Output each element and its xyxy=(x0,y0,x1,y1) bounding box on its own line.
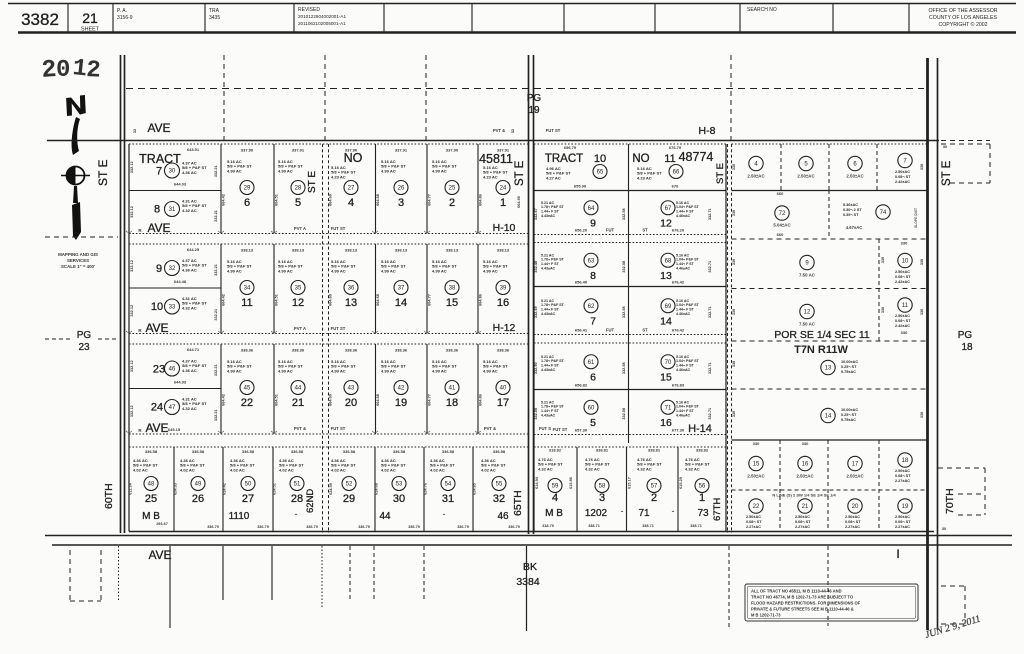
svg-text:FUT S: FUT S xyxy=(539,426,551,431)
header title bar xyxy=(8,3,1016,5)
svg-text:22: 22 xyxy=(241,397,253,409)
svg-text:21: 21 xyxy=(292,397,304,409)
svg-text:FUT: FUT xyxy=(606,328,615,333)
svg-text:H-12: H-12 xyxy=(493,322,516,334)
parcel lot 7 block west xyxy=(129,190,221,192)
svg-text:42: 42 xyxy=(398,386,405,392)
svg-text:330: 330 xyxy=(901,330,908,335)
svg-text:4.99 AC: 4.99 AC xyxy=(381,168,396,173)
svg-text:3435: 3435 xyxy=(209,15,220,21)
svg-text:4.46±AC: 4.46±AC xyxy=(676,214,691,218)
svg-text:10: 10 xyxy=(594,153,606,165)
svg-text:8: 8 xyxy=(590,270,596,282)
svg-text:2.27±AC: 2.27±AC xyxy=(746,525,761,529)
svg-text:676.42: 676.42 xyxy=(672,280,685,285)
svg-text:ST: ST xyxy=(642,228,648,233)
parcel 22 east section xyxy=(749,499,763,513)
svg-text:0.08¬ ST: 0.08¬ ST xyxy=(895,275,911,279)
svg-text:25: 25 xyxy=(449,186,456,192)
svg-text:-: - xyxy=(672,506,675,516)
svg-text:615.17: 615.17 xyxy=(628,477,632,489)
svg-text:22: 22 xyxy=(753,504,760,510)
svg-text:2.50±AC: 2.50±AC xyxy=(846,174,864,179)
svg-text:FUT ST: FUT ST xyxy=(546,128,561,133)
svg-text:61: 61 xyxy=(588,360,595,366)
svg-text:332.71: 332.71 xyxy=(708,408,712,420)
svg-text:SERVICES: SERVICES xyxy=(67,258,89,263)
svg-text:293.67: 293.67 xyxy=(156,522,168,526)
svg-text:14: 14 xyxy=(395,297,407,309)
svg-text:332.21: 332.21 xyxy=(214,210,218,222)
svg-text:32: 32 xyxy=(510,128,515,133)
svg-text:8: 8 xyxy=(154,204,160,216)
svg-text:615.29: 615.29 xyxy=(679,477,683,489)
svg-text:1.04¬ P&F ST: 1.04¬ P&F ST xyxy=(676,405,700,409)
corner ticks xyxy=(126,231,132,233)
svg-text:2.27±AC: 2.27±AC xyxy=(895,525,910,529)
svg-text:5.21 AC: 5.21 AC xyxy=(541,299,554,303)
svg-text:330: 330 xyxy=(732,309,736,315)
svg-text:38: 38 xyxy=(449,286,456,292)
svg-text:4.99 AC: 4.99 AC xyxy=(227,368,242,373)
svg-text:70: 70 xyxy=(665,360,672,366)
svg-text:1202: 1202 xyxy=(585,508,608,519)
svg-text:2.42±AC: 2.42±AC xyxy=(895,180,910,184)
svg-text:M B 1202-71-73: M B 1202-71-73 xyxy=(751,613,781,618)
svg-text:332.71: 332.71 xyxy=(708,362,712,374)
svg-text:0.30¬ 2 ST: 0.30¬ 2 ST xyxy=(843,208,862,212)
svg-text:664.68: 664.68 xyxy=(376,294,380,306)
street bottom AVE I double line xyxy=(45,535,1012,537)
east section row lines xyxy=(732,143,928,145)
svg-text:332.71: 332.71 xyxy=(708,261,712,273)
svg-text:1.44¬ F ST: 1.44¬ F ST xyxy=(541,409,560,413)
svg-text:332.12: 332.12 xyxy=(130,260,134,272)
svg-text:6: 6 xyxy=(590,371,596,383)
svg-text:332.71: 332.71 xyxy=(708,208,712,220)
dashed box right of 70th below ave xyxy=(941,585,965,587)
svg-text:AVE: AVE xyxy=(147,221,170,235)
svg-text:655.99: 655.99 xyxy=(574,184,587,189)
street 70TH ST east boundary xyxy=(926,58,929,630)
svg-text:330: 330 xyxy=(802,441,809,446)
svg-text:4.99 AC: 4.99 AC xyxy=(278,268,293,273)
svg-text:644.48: 644.48 xyxy=(174,279,187,284)
svg-text:330: 330 xyxy=(753,441,760,446)
svg-text:9: 9 xyxy=(590,217,596,229)
svg-text:20: 20 xyxy=(345,397,357,409)
svg-text:56: 56 xyxy=(699,484,706,490)
svg-text:2.50±AC: 2.50±AC xyxy=(846,474,864,479)
svg-text:676.83: 676.83 xyxy=(672,383,685,388)
svg-text:664.42: 664.42 xyxy=(222,294,226,306)
svg-text:332.58: 332.58 xyxy=(622,261,626,273)
svg-text:28: 28 xyxy=(295,186,302,192)
PG18 dashed box mid right xyxy=(938,467,985,469)
svg-text:13: 13 xyxy=(660,270,672,282)
svg-text:614.94: 614.94 xyxy=(535,476,539,489)
svg-text:62: 62 xyxy=(588,304,595,310)
svg-text:4.99 AC: 4.99 AC xyxy=(432,368,447,373)
svg-text:656.79: 656.79 xyxy=(564,145,577,150)
svg-text:-: - xyxy=(443,509,446,519)
svg-text:65TH: 65TH xyxy=(512,490,524,516)
svg-text:664.42: 664.42 xyxy=(222,194,226,206)
dashed box lower left xyxy=(69,550,71,601)
svg-text:664.77: 664.77 xyxy=(428,294,432,306)
svg-text:664.68: 664.68 xyxy=(376,194,380,206)
svg-text:338.13: 338.13 xyxy=(292,248,305,253)
svg-text:4.02 AC: 4.02 AC xyxy=(133,467,148,472)
svg-text:30: 30 xyxy=(393,493,405,505)
svg-text:4.36 AC: 4.36 AC xyxy=(182,267,197,272)
svg-text:41: 41 xyxy=(449,386,456,392)
svg-text:9.75±AC: 9.75±AC xyxy=(841,418,856,422)
svg-text:4.23 AC: 4.23 AC xyxy=(331,174,346,179)
svg-text:14: 14 xyxy=(660,315,672,327)
svg-text:4: 4 xyxy=(348,197,354,209)
svg-text:4.99 AC: 4.99 AC xyxy=(278,168,293,173)
svg-text:1: 1 xyxy=(699,492,705,504)
svg-text:FUT ST: FUT ST xyxy=(553,427,568,432)
svg-text:69: 69 xyxy=(665,304,672,310)
svg-text:36: 36 xyxy=(348,286,355,292)
svg-text:332.12: 332.12 xyxy=(130,206,134,218)
svg-text:332.21: 332.21 xyxy=(214,409,218,421)
svg-text:28: 28 xyxy=(291,493,303,505)
svg-text:AVE: AVE xyxy=(145,421,168,435)
svg-text:2.50±AC: 2.50±AC xyxy=(895,270,910,274)
svg-text:2.50±AC: 2.50±AC xyxy=(795,515,810,519)
svg-text:4.99 AC: 4.99 AC xyxy=(432,168,447,173)
svg-text:330: 330 xyxy=(881,257,885,263)
svg-text:330: 330 xyxy=(732,259,736,265)
svg-text:624.68: 624.68 xyxy=(375,483,379,495)
svg-text:337.91: 337.91 xyxy=(292,148,305,153)
svg-text:5: 5 xyxy=(295,197,301,209)
svg-text:2.42±AC: 2.42±AC xyxy=(895,280,910,284)
svg-text:664.60: 664.60 xyxy=(329,194,333,206)
svg-text:60TH: 60TH xyxy=(103,483,115,509)
svg-text:4.99 AC: 4.99 AC xyxy=(278,368,293,373)
svg-text:FUT: FUT xyxy=(606,228,615,233)
svg-text:0.25¬ ST: 0.25¬ ST xyxy=(841,413,857,417)
svg-text:656.41: 656.41 xyxy=(575,328,588,333)
east section column dashes rows5-6 xyxy=(779,440,781,531)
svg-text:48774: 48774 xyxy=(679,150,714,164)
svg-text:TRA: TRA xyxy=(209,8,220,14)
svg-text:31: 31 xyxy=(169,207,176,213)
svg-text:18: 18 xyxy=(446,397,458,409)
svg-text:332.21: 332.21 xyxy=(214,264,218,276)
svg-text:644.03: 644.03 xyxy=(174,182,187,187)
svg-text:47: 47 xyxy=(169,405,176,411)
svg-text:0.08¬ ST: 0.08¬ ST xyxy=(895,175,911,179)
svg-text:54: 54 xyxy=(445,482,452,488)
parcel 12 east section xyxy=(800,304,814,318)
svg-text:POR SE 1/4 SEC 11: POR SE 1/4 SEC 11 xyxy=(774,329,870,341)
tract 48774 boundary xyxy=(533,144,535,532)
svg-text:4.32 AC: 4.32 AC xyxy=(637,466,652,471)
svg-text:2.50±AC: 2.50±AC xyxy=(797,174,815,179)
svg-text:336.79: 336.79 xyxy=(207,525,219,529)
svg-text:7: 7 xyxy=(590,315,596,327)
svg-text:1.44¬ F ST: 1.44¬ F ST xyxy=(676,210,695,214)
svg-text:4.99 AC: 4.99 AC xyxy=(483,268,498,273)
svg-text:68: 68 xyxy=(665,258,672,264)
svg-text:5.16 AC: 5.16 AC xyxy=(676,253,689,257)
svg-text:51: 51 xyxy=(294,482,301,488)
vertical dash extensions above H-8 xyxy=(223,55,225,140)
svg-text:71: 71 xyxy=(665,405,672,411)
svg-text:4.02 AC: 4.02 AC xyxy=(331,467,346,472)
svg-text:0.08¬ ST: 0.08¬ ST xyxy=(895,319,911,323)
svg-text:338.36: 338.36 xyxy=(292,348,305,353)
parcel 5 east section xyxy=(799,156,813,170)
svg-text:FUT ST: FUT ST xyxy=(331,326,346,331)
parcel 4 east section xyxy=(749,156,763,170)
svg-text:338.13: 338.13 xyxy=(497,248,510,253)
svg-text:2.50±AC: 2.50±AC xyxy=(796,474,814,479)
svg-text:67TH: 67TH xyxy=(712,498,723,521)
svg-text:4.46±AC: 4.46±AC xyxy=(676,266,691,270)
svg-text:4.02 AC: 4.02 AC xyxy=(381,467,396,472)
svg-text:338.13: 338.13 xyxy=(241,248,254,253)
svg-text:ST E: ST E xyxy=(96,160,110,186)
svg-text:63: 63 xyxy=(588,258,595,264)
svg-text:12: 12 xyxy=(660,217,672,229)
svg-text:338.36: 338.36 xyxy=(446,348,459,353)
svg-text:OFFICE OF THE ASSESSOR: OFFICE OF THE ASSESSOR xyxy=(928,8,997,14)
svg-text:29: 29 xyxy=(343,493,355,505)
svg-text:TRACT: TRACT xyxy=(545,153,583,165)
svg-text:4.43±AC: 4.43±AC xyxy=(541,413,556,417)
svg-text:PG: PG xyxy=(77,330,92,341)
svg-text:336.58: 336.58 xyxy=(343,449,356,454)
svg-text:664.51: 664.51 xyxy=(275,394,279,406)
svg-text:676: 676 xyxy=(672,184,679,189)
svg-text:45811: 45811 xyxy=(479,152,513,166)
svg-text:M B: M B xyxy=(545,508,563,519)
svg-text:12: 12 xyxy=(292,297,304,309)
svg-text:SEARCH NO: SEARCH NO xyxy=(747,7,777,13)
svg-text:338.13: 338.13 xyxy=(395,248,408,253)
svg-text:338.81: 338.81 xyxy=(648,448,661,453)
svg-text:336.79: 336.79 xyxy=(457,525,469,529)
svg-text:645.15: 645.15 xyxy=(168,427,181,432)
svg-text:7.50 AC: 7.50 AC xyxy=(799,322,816,327)
street 62ND ST E dashed xyxy=(322,144,324,533)
svg-text:4.23 AC: 4.23 AC xyxy=(637,175,652,180)
svg-text:4.99 AC: 4.99 AC xyxy=(227,268,242,273)
svg-text:338.71: 338.71 xyxy=(588,524,600,528)
svg-text:15: 15 xyxy=(446,297,458,309)
svg-text:1.04¬ P&F ST: 1.04¬ P&F ST xyxy=(676,258,700,262)
svg-text:330: 330 xyxy=(732,210,736,216)
svg-text:44: 44 xyxy=(379,511,391,522)
svg-text:PVT &: PVT & xyxy=(294,426,306,431)
svg-text:11: 11 xyxy=(241,297,252,309)
svg-text:664.86: 664.86 xyxy=(479,194,483,206)
svg-text:T7N R11W: T7N R11W xyxy=(794,344,848,356)
svg-text:3: 3 xyxy=(398,197,404,209)
svg-text:664.60: 664.60 xyxy=(329,294,333,306)
svg-text:664.95: 664.95 xyxy=(517,196,521,208)
svg-text:332.12: 332.12 xyxy=(130,305,134,317)
svg-text:338.71: 338.71 xyxy=(690,524,702,528)
svg-text:611.14: 611.14 xyxy=(129,482,133,494)
svg-text:1.78¬ P&F ST: 1.78¬ P&F ST xyxy=(541,359,565,363)
svg-text:1.44¬ F ST: 1.44¬ F ST xyxy=(541,210,560,214)
svg-text:330: 330 xyxy=(920,309,924,315)
svg-text:48: 48 xyxy=(148,482,155,488)
svg-text:332.58: 332.58 xyxy=(622,306,626,318)
svg-text:1: 1 xyxy=(500,197,506,209)
svg-text:1.78¬ P&F ST: 1.78¬ P&F ST xyxy=(541,205,565,209)
parcel lot 23 block west xyxy=(129,388,221,390)
svg-text:10: 10 xyxy=(151,301,163,313)
svg-text:59: 59 xyxy=(552,484,559,490)
svg-text:336.58: 336.58 xyxy=(192,449,205,454)
svg-text:624.85: 624.85 xyxy=(473,483,477,495)
svg-text:656.40: 656.40 xyxy=(575,280,588,285)
svg-text:26: 26 xyxy=(398,186,405,192)
svg-text:2.50±AC: 2.50±AC xyxy=(845,515,860,519)
svg-text:AVE: AVE xyxy=(145,321,168,335)
svg-text:332.50: 332.50 xyxy=(534,408,538,420)
svg-text:ST E: ST E xyxy=(514,160,526,186)
north arrow xyxy=(61,95,90,240)
svg-text:57: 57 xyxy=(651,484,658,490)
svg-text:664.60: 664.60 xyxy=(329,394,333,406)
svg-text:664.68: 664.68 xyxy=(376,394,380,406)
svg-text:332.21: 332.21 xyxy=(214,309,218,321)
svg-text:4.32 AC: 4.32 AC xyxy=(585,466,600,471)
svg-text:2011062102005001-A1: 2011062102005001-A1 xyxy=(298,21,346,26)
svg-text:332.47: 332.47 xyxy=(534,208,538,220)
svg-text:332.21: 332.21 xyxy=(214,165,218,177)
svg-text:21: 21 xyxy=(82,10,98,26)
parcel 11 east section xyxy=(898,298,912,312)
svg-text:2.50±AC: 2.50±AC xyxy=(746,515,761,519)
svg-text:4.32 AC: 4.32 AC xyxy=(182,305,197,310)
svg-text:0.39¬ ST: 0.39¬ ST xyxy=(843,213,859,217)
svg-text:337.90: 337.90 xyxy=(446,148,459,153)
street 67TH ST E dashed xyxy=(727,144,729,533)
svg-text:70TH: 70TH xyxy=(944,488,956,514)
parcel 19 east section xyxy=(898,499,912,513)
svg-text:615.86: 615.86 xyxy=(569,477,573,489)
svg-text:336.58: 336.58 xyxy=(242,449,255,454)
svg-text:3: 3 xyxy=(599,492,605,504)
svg-text:5.16 AC: 5.16 AC xyxy=(676,355,689,359)
svg-text:5.16 AC: 5.16 AC xyxy=(676,299,689,303)
svg-text:336.58: 336.58 xyxy=(442,449,455,454)
svg-text:62ND: 62ND xyxy=(305,489,316,513)
svg-text:ST E: ST E xyxy=(715,163,726,184)
svg-text:3384: 3384 xyxy=(516,576,540,588)
PG18 dashed box top right xyxy=(941,143,990,145)
svg-text:AVE: AVE xyxy=(148,548,171,562)
svg-text:PRIVATE & FUTURE STREETS SEE M: PRIVATE & FUTURE STREETS SEE M B 1110-44… xyxy=(751,607,854,612)
east column dash row2 xyxy=(828,190,830,239)
svg-text:COUNTY OF LOS ANGELES: COUNTY OF LOS ANGELES xyxy=(929,15,997,21)
svg-text:332.58: 332.58 xyxy=(622,408,626,420)
svg-text:21: 21 xyxy=(802,504,809,510)
svg-text:336.79: 336.79 xyxy=(358,525,370,529)
svg-text:337.90: 337.90 xyxy=(241,148,254,153)
svg-text:37: 37 xyxy=(398,286,405,292)
svg-text:4.46±AC: 4.46±AC xyxy=(676,413,691,417)
svg-text:332.49: 332.49 xyxy=(534,306,538,318)
svg-text:336.58: 336.58 xyxy=(493,449,506,454)
svg-text:656.20: 656.20 xyxy=(575,228,588,233)
svg-text:27: 27 xyxy=(242,493,254,505)
svg-text:4.43±AC: 4.43±AC xyxy=(541,368,556,372)
svg-text:33: 33 xyxy=(169,305,176,311)
svg-text:12: 12 xyxy=(804,310,811,316)
parcel 15 east section xyxy=(749,456,763,470)
east column dash rows 3-4 xyxy=(878,239,880,341)
svg-text:336.58: 336.58 xyxy=(145,449,158,454)
svg-text:I: I xyxy=(896,547,899,561)
svg-text:664.86: 664.86 xyxy=(479,394,483,406)
svg-text:336.58: 336.58 xyxy=(393,449,406,454)
svg-text:3156-9: 3156-9 xyxy=(117,15,133,21)
svg-text:53: 53 xyxy=(396,482,403,488)
svg-text:7: 7 xyxy=(156,166,162,178)
tract 45811 boundary verticals xyxy=(128,144,130,532)
svg-text:338.71: 338.71 xyxy=(642,524,654,528)
svg-text:664.42: 664.42 xyxy=(222,394,226,406)
svg-text:18: 18 xyxy=(961,342,973,353)
svg-text:2.50±AC: 2.50±AC xyxy=(895,515,910,519)
svg-text:2010122904002001-A1: 2010122904002001-A1 xyxy=(298,14,346,19)
svg-text:4.23 AC: 4.23 AC xyxy=(483,174,498,179)
svg-text:338.81: 338.81 xyxy=(596,448,609,453)
svg-text:67: 67 xyxy=(665,206,672,212)
svg-text:ALL OF TRACT NO 45811, M B 111: ALL OF TRACT NO 45811, M B 1110-44-46 AN… xyxy=(751,589,842,594)
svg-text:30: 30 xyxy=(942,527,946,531)
svg-text:27: 27 xyxy=(348,186,355,192)
svg-text:2.50±AC: 2.50±AC xyxy=(895,314,910,318)
svg-text:REVISED: REVISED xyxy=(298,7,320,13)
svg-text:1.44¬ F ST: 1.44¬ F ST xyxy=(676,308,695,312)
svg-text:338.13: 338.13 xyxy=(446,248,459,253)
svg-text:2.50±AC: 2.50±AC xyxy=(747,474,765,479)
svg-text:H-14: H-14 xyxy=(688,423,712,435)
svg-text:330: 330 xyxy=(920,259,924,265)
svg-text:5.36±AC: 5.36±AC xyxy=(843,203,858,207)
svg-text:4.36 AC: 4.36 AC xyxy=(182,170,197,175)
svg-text:332.50: 332.50 xyxy=(534,362,538,374)
svg-text:50: 50 xyxy=(245,482,252,488)
svg-text:19: 19 xyxy=(395,397,407,409)
svg-text:656.82: 656.82 xyxy=(575,383,588,388)
svg-text:0.08¬ ST: 0.08¬ ST xyxy=(845,520,861,524)
svg-text:2: 2 xyxy=(449,197,455,209)
svg-text:677.30: 677.30 xyxy=(672,428,685,433)
svg-text:624.42: 624.42 xyxy=(223,483,227,495)
svg-text:330: 330 xyxy=(901,241,908,246)
svg-text:32: 32 xyxy=(169,266,176,272)
svg-text:65: 65 xyxy=(597,170,604,176)
svg-text:664.77: 664.77 xyxy=(428,394,432,406)
svg-text:46: 46 xyxy=(497,511,509,522)
parcel 16 east section xyxy=(798,456,812,470)
svg-text:0: 0 xyxy=(56,57,70,84)
svg-text:PVT &: PVT & xyxy=(484,426,496,431)
